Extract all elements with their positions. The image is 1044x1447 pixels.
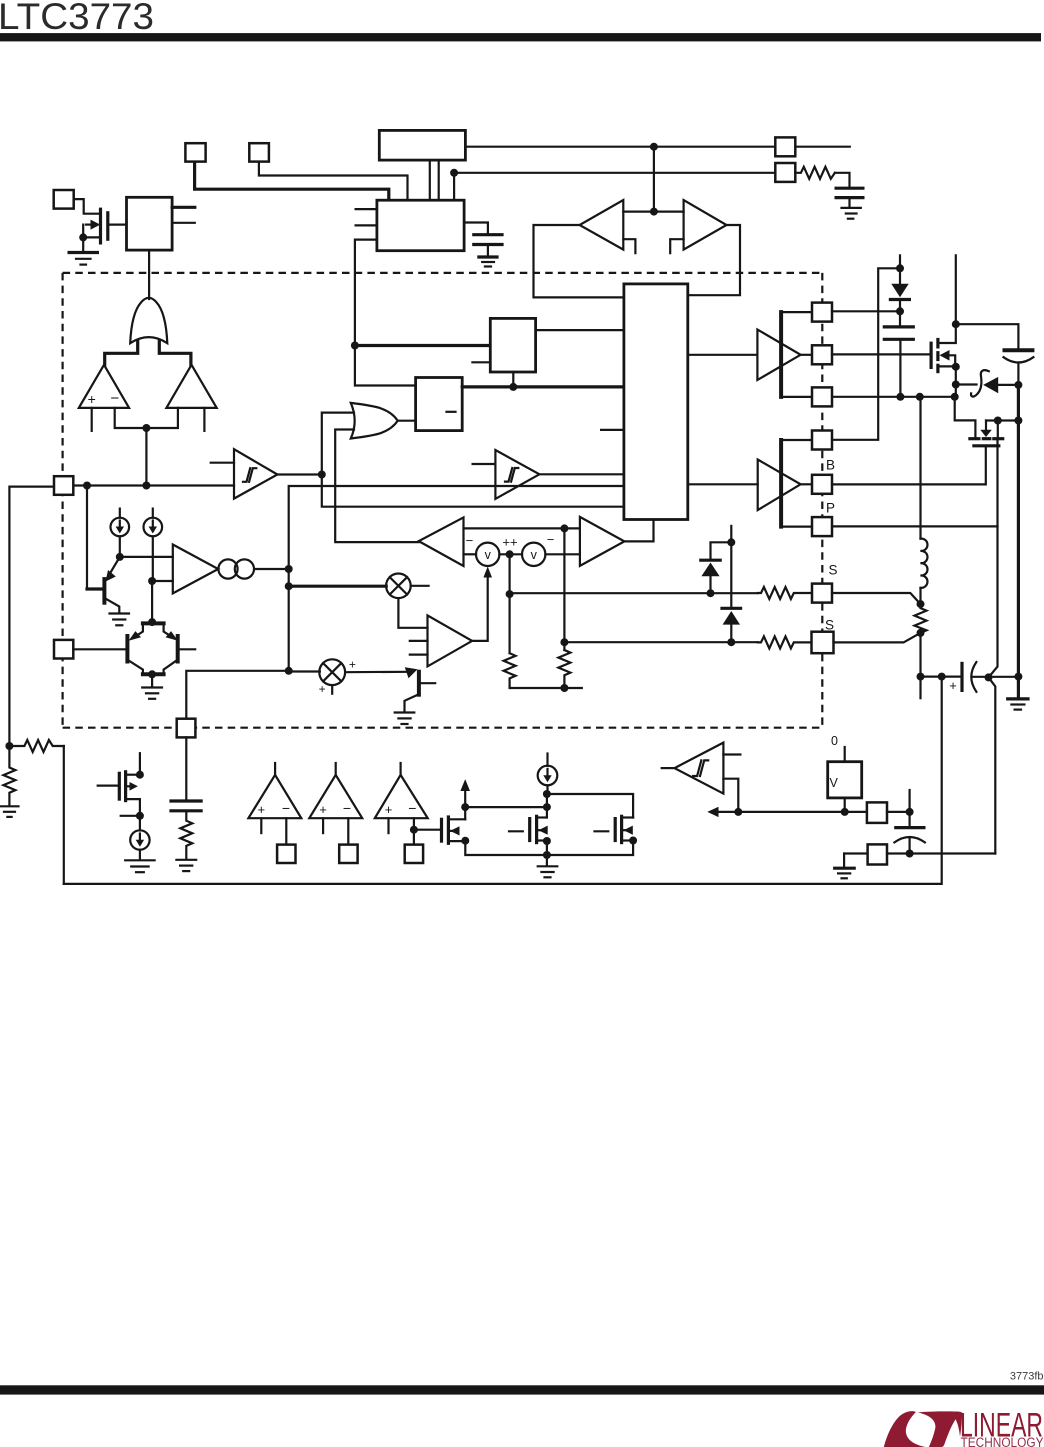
ground under Q3 xyxy=(395,713,415,725)
svg-text:+: + xyxy=(258,802,266,817)
svg-text:P: P xyxy=(826,501,835,516)
wire CMP3 to M3 gate xyxy=(414,829,442,831)
wire PLLFLTR line xyxy=(454,172,775,174)
wire sgnd right xyxy=(887,852,995,854)
wire X2 to Q3 with arrow xyxy=(345,671,406,674)
node PGND bus bottom xyxy=(1014,673,1022,681)
stub ST1 upper input xyxy=(211,462,234,464)
wire comparator shared input bar xyxy=(115,408,178,428)
transistor M3 (pgood pulldown 1) xyxy=(442,817,466,843)
resistor R5 (divider bottom) xyxy=(3,746,15,805)
svg-text:+: + xyxy=(949,678,957,693)
wire node to ITH pin xyxy=(186,671,288,719)
buffer loop left vertical xyxy=(534,225,624,297)
diode D2 (schottky) xyxy=(701,542,732,593)
current source CS5 xyxy=(538,766,558,794)
node reference xyxy=(841,808,849,816)
wire mirror source rail xyxy=(465,841,633,856)
svg-text:+: + xyxy=(385,802,393,817)
svg-text:+: + xyxy=(319,682,326,696)
node M5 source xyxy=(629,837,637,845)
node ITH main xyxy=(285,565,293,573)
wire OR1 input left xyxy=(105,341,138,365)
capacitor C1 xyxy=(474,235,502,257)
wire OR2 lower input from EA xyxy=(335,430,419,543)
capacitor C5 (output, polarized) xyxy=(962,662,1018,692)
wire CS5 to M5 drain xyxy=(547,794,633,818)
node CS1 xyxy=(116,553,124,561)
svg-text:v: v xyxy=(531,548,538,562)
buffer TRI-R (pointing right) xyxy=(684,200,727,250)
node run divider xyxy=(5,742,13,750)
driver DRV1 (top gate) xyxy=(757,330,800,381)
svg-text:3773fb: 3773fb xyxy=(1010,1371,1044,1383)
pin VOSENSE1 xyxy=(277,845,295,863)
wire to power ground xyxy=(1017,677,1020,698)
multiplier X1 xyxy=(386,574,411,599)
wire sense- line xyxy=(564,641,757,643)
node M3 source xyxy=(461,837,469,845)
resistor R9 (ITH comp) xyxy=(180,811,192,859)
stub UV right input xyxy=(203,408,205,431)
comparator OV (up-pointing, + -) xyxy=(79,365,129,408)
stub ST3 output xyxy=(662,767,675,769)
transistor M5 (mirror) xyxy=(595,816,634,842)
hysteresis glyph ST3 xyxy=(693,760,708,776)
wire ST1 out down xyxy=(322,475,624,507)
multiplier X2 xyxy=(319,659,345,685)
wire vref line with arrow xyxy=(712,811,867,813)
wire PWM to driver BG xyxy=(688,483,758,485)
comparator CMP2 (vosense2) xyxy=(309,763,362,845)
stub CS5 top xyxy=(546,754,548,767)
wire VIN node to C4 xyxy=(956,324,1019,349)
header rule xyxy=(0,33,1041,41)
capacitor C6 (polarized) xyxy=(894,812,925,854)
node M7 source xyxy=(994,417,1002,425)
svg-text:TECHNOLOGY: TECHNOLOGY xyxy=(961,1435,1044,1447)
node plusplus xyxy=(506,550,514,558)
pin VOSENSE3 xyxy=(405,845,423,863)
stub B4 left xyxy=(472,361,490,363)
wire EA to Vc1 xyxy=(464,553,477,555)
ground under CS4 xyxy=(125,860,154,872)
wire buffer backs xyxy=(623,211,683,213)
node ITH b xyxy=(285,582,293,590)
schmitt trigger ST2 xyxy=(495,450,539,499)
node PLL line xyxy=(450,169,458,177)
wire thick B5 to PWM xyxy=(462,385,624,388)
svg-text:++: ++ xyxy=(502,535,517,550)
resistor R4 (divider top) xyxy=(9,740,63,752)
wire SYNC down to buffers xyxy=(653,147,655,212)
node RUN a xyxy=(83,482,91,490)
capacitor C2 (PLL filter) xyxy=(836,188,863,208)
wire B2 right to C1 xyxy=(464,223,488,235)
node PGND bus top xyxy=(1014,417,1022,425)
wire thick ITH to mult1 xyxy=(289,585,387,588)
node D1 anode xyxy=(896,264,904,272)
wire OR1 input right xyxy=(159,341,191,365)
stub TRI-R enable xyxy=(670,239,683,253)
wire pin S2 down-right bus xyxy=(259,162,408,201)
stub Vout down xyxy=(919,677,921,699)
wire sense+ line xyxy=(510,592,758,594)
svg-text:−: − xyxy=(466,533,474,548)
source Vc1 (offset) xyxy=(476,543,499,566)
wire CS2 node to gm amp xyxy=(152,580,173,582)
wire node to mult2 xyxy=(289,670,320,672)
stub B2 left 2 xyxy=(356,224,377,226)
wire X1 bottom to slope amp xyxy=(398,598,427,628)
stub D3 top free xyxy=(730,526,732,542)
transistor Q1 (PNP soft-start clamp) xyxy=(87,557,120,613)
node D3 top xyxy=(727,538,735,546)
wire DRV2 out to BG pin xyxy=(801,483,812,485)
node sense+ xyxy=(506,590,514,598)
wire SW node down to M7 drain xyxy=(955,397,976,438)
pin SW xyxy=(812,387,832,406)
node Rs bottom xyxy=(917,629,925,637)
node phase detector bottom xyxy=(148,670,156,678)
buffer loop right vertical xyxy=(688,225,740,295)
wire B4 bottom tap xyxy=(512,372,514,387)
comparator CMPI (pointing right) xyxy=(580,517,625,566)
wire CS2 node down xyxy=(151,581,153,622)
wire ST3 lower input xyxy=(723,779,738,812)
transistor pair Q2 (phase detector) xyxy=(127,623,177,686)
node Rs top xyxy=(917,600,925,608)
svg-text:−: − xyxy=(110,390,119,407)
svg-text:−: − xyxy=(547,532,555,547)
node ST3 input xyxy=(734,808,742,816)
wire M3 drain with up arrow xyxy=(464,785,466,820)
node Vout xyxy=(917,673,925,681)
wire CS1 node to gm amp xyxy=(120,556,173,558)
node M3 drain xyxy=(461,803,469,811)
node D2 anode xyxy=(707,589,715,597)
wire rail to ground xyxy=(546,855,548,866)
wire pin to Q2 left base xyxy=(73,648,126,650)
LT logo mark xyxy=(884,1411,962,1447)
svg-text:B: B xyxy=(826,458,835,473)
driver DRV2 (bottom gate) xyxy=(758,460,801,511)
wire SYNC free end xyxy=(795,146,850,148)
ground under Q2 xyxy=(142,688,162,699)
wire CMPI out to PWM bottom xyxy=(624,520,653,542)
wire DRV1 supply loop xyxy=(781,312,812,397)
current source CS4 xyxy=(130,816,149,860)
amplifier EA (I comparator, pointing left) xyxy=(419,517,464,566)
node RUN b xyxy=(142,482,150,490)
node inductor top xyxy=(916,393,924,401)
ground under C2 xyxy=(842,208,861,219)
wire pin4 to M1 gate xyxy=(74,199,100,214)
wire mirror out xyxy=(254,568,289,570)
wire pin S1 down-right bus xyxy=(195,162,389,201)
wire ITH pin to C7 xyxy=(185,737,187,800)
stub B3 right upper xyxy=(172,206,195,209)
wire BG to M7 gate xyxy=(832,446,986,484)
node top line xyxy=(560,524,568,532)
transistor M2 (run-ss discharge) xyxy=(98,772,140,816)
block B1 (oscillator) xyxy=(379,130,465,160)
wire OR2 output xyxy=(398,420,416,422)
wire M3 node to CS5 node xyxy=(465,806,547,808)
wire BOOST pin to diode node xyxy=(832,310,900,312)
node CS5 out xyxy=(543,790,551,798)
node M1 source xyxy=(79,233,87,241)
node D1 cathode xyxy=(896,307,904,315)
wire B2 left 3 down xyxy=(355,240,377,346)
transistor M4 (mirror) xyxy=(509,816,548,855)
svg-text:+: + xyxy=(319,802,327,817)
amplifier SLP (slope) xyxy=(428,615,473,666)
block B6 (PWM logic) xyxy=(624,284,688,520)
node bar center xyxy=(142,424,150,432)
stub B2 left 1 xyxy=(356,208,377,210)
resistor R3 (sense-) xyxy=(758,636,811,648)
pin MODE/SYNC xyxy=(775,137,795,156)
hysteresis glyph ST1 xyxy=(243,468,256,482)
resistor R2 (sense+) xyxy=(758,587,811,599)
wire CS1 to node xyxy=(119,536,121,557)
node C3 bottom SW xyxy=(896,393,904,401)
stub TRI-L enable xyxy=(623,239,635,253)
wire M7 source chain down xyxy=(989,439,998,854)
wire Vout return rail xyxy=(64,677,942,884)
ground power (right) xyxy=(1008,699,1028,710)
stub M2 source left xyxy=(121,815,140,817)
stub M2 drain up xyxy=(139,753,141,775)
pin CLKOUT (S2) xyxy=(249,143,269,161)
pin PLLIN xyxy=(775,163,795,182)
node rail center xyxy=(543,851,551,859)
wire CS2 to node xyxy=(152,536,154,581)
wire ST1 output xyxy=(277,473,321,475)
node ITH c xyxy=(285,667,293,675)
node M2 drain xyxy=(136,771,144,779)
capacitor C3 (boost) xyxy=(884,311,913,397)
stub Q2 right base xyxy=(179,648,195,650)
stub VIN above M6 xyxy=(955,255,957,324)
wire Vout to C5 xyxy=(921,675,963,677)
bus B1 to B2 right xyxy=(438,160,440,200)
wire ST1 out up to OR2 xyxy=(322,413,354,475)
wire divider to bottom rail xyxy=(63,746,65,884)
pin SENSE+ xyxy=(812,584,832,603)
wire DRV1 out to TG pin xyxy=(801,354,812,356)
block B3 (shutdown logic) xyxy=(127,197,173,250)
pin TG xyxy=(812,345,832,364)
wire mid rail to PWM xyxy=(289,486,624,671)
resistor R1 (PLL filter) xyxy=(795,167,835,179)
node SW at M6 xyxy=(951,393,959,401)
resistor R7 xyxy=(558,650,570,688)
stub reference top xyxy=(844,747,846,762)
schmitt trigger ST1 xyxy=(234,449,277,498)
wire Vc2 to CMPI xyxy=(545,553,580,555)
schmitt trigger ST3 (pgood, pointing left) xyxy=(675,743,724,794)
wire RUN pin left branch xyxy=(9,487,54,746)
svg-text:S: S xyxy=(825,618,834,633)
label minus B5 xyxy=(447,411,456,413)
pin VOSENSE2 xyxy=(339,845,357,863)
diode D4 (zener clamp) xyxy=(956,370,1019,396)
IC boundary dashed box xyxy=(63,273,823,728)
pin ITH (bottom edge) xyxy=(177,719,196,738)
pin VCC xyxy=(812,431,832,450)
ground under R5 xyxy=(1,806,19,817)
pin PHASMD (S1) xyxy=(185,143,205,161)
buffer TRI-L (pointing left) xyxy=(580,200,624,250)
symbol double circle (current mirror) xyxy=(218,559,254,578)
inductor L1 xyxy=(921,397,928,604)
pin BOOST xyxy=(812,303,832,322)
wire SYNC line xyxy=(465,146,775,148)
transistor M1 (small P-FET) xyxy=(83,209,108,250)
node C6 bottom xyxy=(906,850,914,858)
node M6 drain xyxy=(952,320,960,328)
node M6 source-body xyxy=(952,363,960,371)
svg-text:+: + xyxy=(88,391,96,407)
comparator UV (up-pointing) xyxy=(166,365,216,408)
capacitor C4 (VIN reservoir, polarized) xyxy=(1004,350,1034,385)
bus B1 to B2 left xyxy=(429,160,431,200)
ground under mirror xyxy=(538,866,558,877)
wire TG pin to M6 gate xyxy=(832,353,931,355)
stub X2 bottom xyxy=(331,685,333,694)
current source CS2 xyxy=(144,509,163,537)
wire Rs to Vout node xyxy=(919,633,921,677)
node zener left xyxy=(952,381,960,389)
stub ST2 input xyxy=(473,463,496,465)
wire sgnd line xyxy=(844,852,868,854)
transistor M6 (top power FET) xyxy=(931,324,956,397)
wire SLP out up-arrow to Vc1 xyxy=(472,573,488,641)
wire R1 to C2 xyxy=(835,173,850,188)
comparator CMP1 (vosense1) xyxy=(248,763,301,845)
ground under C1 xyxy=(479,257,497,267)
stub SLP input 2 xyxy=(410,653,428,655)
node phase detector top xyxy=(148,618,156,626)
transistor M7 (bottom power FET) xyxy=(970,421,1019,446)
stub B3 right lower xyxy=(172,222,195,224)
wire soft-start discharge xyxy=(86,486,88,590)
resistor R8 (sense) xyxy=(915,604,927,633)
node M2 source xyxy=(136,812,144,820)
stub X1 output xyxy=(411,585,429,587)
node sense- xyxy=(560,638,568,646)
OR gate OR2 (pointing right) xyxy=(351,403,398,439)
svg-text:v: v xyxy=(485,548,492,562)
node C6 top xyxy=(906,808,914,816)
wire B3 to OR1 xyxy=(148,250,150,299)
wire DRV2 supply loop xyxy=(781,440,812,527)
pin SGND xyxy=(868,844,887,864)
pin BG xyxy=(812,475,832,494)
capacitor C7 (ITH comp) xyxy=(171,801,201,811)
svg-text:+: + xyxy=(349,658,356,672)
node D3 anode xyxy=(727,638,735,646)
amplifier gm (error amp) xyxy=(173,545,218,594)
transistor Q3 (ITH clamp) xyxy=(405,672,436,712)
pin SENSE- xyxy=(812,632,834,654)
comparator CMP3 (vosense3) xyxy=(375,763,428,845)
pin PGND xyxy=(812,517,832,536)
ground sgnd xyxy=(835,868,855,878)
node ST1 out xyxy=(318,471,326,479)
svg-text:−: − xyxy=(408,800,416,816)
wire SW rail xyxy=(832,396,955,398)
svg-text:LTC3773: LTC3773 xyxy=(0,0,154,37)
svg-text:−: − xyxy=(282,800,290,816)
stub B6 left free xyxy=(601,429,624,431)
hysteresis glyph ST2 xyxy=(505,468,518,482)
wire RUN pin line xyxy=(73,484,234,486)
node C5 left xyxy=(938,673,946,681)
node divider bottom xyxy=(560,684,568,692)
wire PLL node to B2 xyxy=(453,173,455,200)
node PGND jog xyxy=(985,673,993,681)
block B7 (voltage reference) xyxy=(828,762,862,798)
svg-text:0: 0 xyxy=(831,734,838,748)
svg-text:S: S xyxy=(829,563,838,578)
node CMP3 gate tap xyxy=(410,826,418,834)
ground under R9 xyxy=(176,860,196,871)
pin UVOUT xyxy=(867,802,887,823)
wire sgnd to ground xyxy=(843,854,845,867)
node buffer backs xyxy=(650,208,658,216)
wire SENSE- to Rs bottom xyxy=(834,633,921,643)
wire sense+ divider xyxy=(509,554,511,653)
wire sense- divider xyxy=(563,528,565,650)
diode D3 (schottky) xyxy=(722,542,741,642)
pin UVIN (top left) xyxy=(54,190,74,209)
stub OV plus input xyxy=(91,408,93,431)
wire EA top line xyxy=(464,527,580,529)
wire thick to B4 xyxy=(355,344,490,347)
ground under M1 xyxy=(69,253,97,265)
stub C6 node up xyxy=(908,790,910,812)
wire ST2 output to PWM xyxy=(539,473,624,475)
svg-text:−: − xyxy=(343,800,351,816)
node thick line xyxy=(351,342,359,350)
ground under Q1 xyxy=(110,614,130,626)
wire divider bottom xyxy=(511,687,582,689)
OR gate OR1 (pointing up) xyxy=(130,298,167,343)
wire SENSE+ to Rs top xyxy=(832,593,921,604)
stub ST3 top input xyxy=(723,753,740,755)
footer rule xyxy=(0,1385,1044,1394)
node CS2 xyxy=(148,577,156,585)
resistor R6 xyxy=(504,653,516,688)
diode D1 (boost) xyxy=(890,268,909,311)
node zener right xyxy=(1014,381,1022,389)
wire VCC pin up to VIN node xyxy=(832,268,900,440)
stub SLP input 1 xyxy=(410,640,428,642)
wire PWM to driver TG xyxy=(688,354,758,356)
wire B4 output to PWM xyxy=(536,329,624,331)
source Vc2 (offset) xyxy=(522,543,545,566)
node M4 drain gate xyxy=(543,803,551,811)
node M4 source xyxy=(543,837,551,845)
wire PGND pin to M7 source xyxy=(832,525,998,527)
wire Vc1 to node xyxy=(499,553,522,555)
wire down to minus box xyxy=(355,346,416,386)
block B4 (slope comp) xyxy=(490,318,535,372)
block B2 (clock divider logic) xyxy=(377,200,464,251)
